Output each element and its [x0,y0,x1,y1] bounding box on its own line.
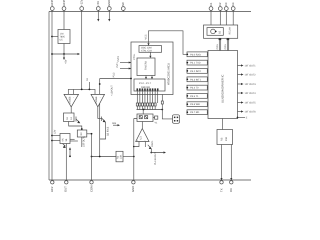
wire VCC riser from U1 to U4 row1 [144,31,187,55]
svg-text:PULSEOUT: PULSEOUT [154,152,157,165]
svg-text:P3.5 T1: P3.5 T1 [190,95,199,98]
svg-text:P3.2: P3.2 [113,72,116,78]
svg-text:10T OUT1: 10T OUT1 [82,135,85,147]
terminal J6 (top, NC) [121,2,125,12]
crystal Y1 [137,114,158,125]
voltage regulator U5 LM7805 [58,30,70,44]
svg-text:COIL: COIL [224,43,227,49]
dip switch S1 [173,115,180,124]
transistor Q3 emitter arrows [63,139,78,148]
net label box P3.6 [186,102,208,107]
wire net K vertical to GND terminal [91,134,93,180]
wire U1 to S1 [161,95,163,102]
svg-text:P3.3 INT1: P3.3 INT1 [190,78,201,81]
svg-text:10T OUT1: 10T OUT1 [245,65,257,68]
U4 output pin OUT3 [238,83,257,86]
wire U2A output down [70,107,72,113]
MCU U1 outer box [131,42,173,95]
svg-text:AC2: AC2 [50,186,54,192]
svg-text:TX: TX [219,188,223,192]
U4 output pin OUT1 [238,64,257,67]
wire J7 RX down [230,145,232,179]
net label box P3.7 [186,110,208,115]
wire INT0 into U1 [117,56,131,64]
svg-text:K3: K3 [224,2,228,6]
terminal J3 (top, +12V) [80,0,84,10]
terminal K2 (top) [218,2,222,10]
U1 inner block: oscillator [139,46,162,53]
wire J2 to U5 [63,11,65,30]
svg-text:COIL: COIL [216,43,219,49]
wire U6 to terminal [65,144,67,181]
off-page arrow SIG [112,122,120,126]
node +5V rail with off-page arrow [51,53,80,55]
terminal J12 (bottom, TX) [219,181,223,192]
wire K3 to LS1 [225,11,227,26]
wire AC1 to U5 input [51,36,58,38]
interface module J7 [217,130,233,145]
wire net to MCU P3.2 (long vertical) [99,79,101,157]
svg-text:+5V: +5V [65,59,68,64]
wire R2 to rail K [87,133,93,135]
terminal J4 (top, +5V) with down arrow [96,1,100,22]
svg-text:+5V: +5V [96,1,100,6]
wire J7 TX down [221,145,223,179]
svg-text:P3.7 RD: P3.7 RD [190,111,199,114]
wire K2 to LS1 [219,11,221,26]
terminal K1 (top) [209,2,213,10]
wire INT1 into U1 [116,62,131,70]
net label box P3.4 [186,85,208,90]
wire stub +12V to rail [86,77,90,89]
svg-text:COM: COM [89,185,93,192]
wire U4 GND stub [237,117,248,120]
svg-text:+12V: +12V [80,0,84,6]
terminal J1 (top, AC9V) [50,0,54,10]
wire timer to port block arrow [145,76,153,80]
transistor Q2 [98,117,110,140]
svg-text:10T OUT2: 10T OUT2 [245,74,257,77]
resistor R3 [116,151,123,162]
wire net AC1 vertical [51,11,53,181]
wire bus to crystal [142,110,144,115]
terminal K3 (top) [224,2,228,10]
net label box P3.3 [186,77,208,82]
U1 inner block: timer [133,53,155,75]
svg-text:LM358: LM358 [95,96,98,104]
node base Q2 [81,128,83,130]
wire U5 output down [63,44,65,55]
svg-text:GND: GND [107,0,111,6]
svg-text:CTRL: CTRL [133,53,136,60]
wire emitter rail (bottom analog) [91,156,135,158]
svg-text:INT1: INT1 [116,62,119,68]
U1 inner block: port latch [134,79,165,91]
svg-text:INT0: INT0 [117,56,120,62]
terminal J9 (bottom, OUT) [63,181,68,192]
svg-text:10T OUT4: 10T OUT4 [245,92,257,95]
svg-text:AC9V: AC9V [50,0,54,6]
wire U3 input stub A [134,142,139,147]
svg-text:P3.0 RXD: P3.0 RXD [190,53,201,56]
svg-text:AC9V: AC9V [62,0,66,6]
wire AC1 to U6 [51,135,60,142]
wire U3 input stub B [144,142,146,148]
resistor R2 [77,130,87,137]
wire R1 to R2 [69,122,82,131]
wire osc to timer with arrow [149,52,151,58]
svg-text:232: 232 [225,136,228,141]
wire P3.2 into U1 [100,72,132,79]
wire net +12V vertical [81,11,83,90]
wire R2 emitter down [82,135,86,147]
node osc out junction [150,152,152,154]
svg-text:P3.6 WR: P3.6 WR [190,103,200,106]
terminal J13 (bottom, RX) [229,181,233,192]
svg-text:1K: 1K [70,117,73,120]
U4 output pin OUT6 [238,110,257,113]
transistor Q4 [148,140,154,149]
svg-text:K1: K1 [209,2,213,6]
terminal K4 (top) [231,2,235,10]
terminal J8 (bottom, AC) [50,181,54,192]
U4 output pin OUT4 [238,92,257,95]
svg-text:LM358: LM358 [68,96,71,104]
U4 output pin OUT5 [238,101,257,104]
svg-text:P1.0 - P1.7: P1.0 - P1.7 [139,82,152,85]
svg-text:P3.2 INT0: P3.2 INT0 [190,70,201,73]
svg-text:SIG: SIG [112,122,116,125]
wire U4 to J7 [222,119,224,130]
svg-text:12V: 12V [54,129,57,134]
frame bottom border [49,179,251,181]
net label box P3.1 [186,60,208,65]
test point arrow TP1 [69,147,71,157]
frame left border [48,12,50,181]
U4 output pin OUT2 [238,73,257,76]
svg-text:K4: K4 [231,2,235,6]
svg-text:10T OUT6: 10T OUT6 [245,111,257,114]
svg-text:VCC: VCC [144,34,147,39]
svg-text:RELAY: RELAY [229,26,232,34]
wire K4 to LS1 [232,11,234,26]
wire pin bus [137,109,164,111]
terminal J5 (top, GND) with down arrow [107,0,111,22]
svg-text:OUT: OUT [63,186,67,192]
svg-text:XTAL CLK: XTAL CLK [141,50,152,53]
svg-text:OSC1: OSC1 [151,140,154,147]
svg-text:+12VOUT: +12VOUT [111,85,114,96]
frame top border [49,11,251,13]
svg-text:10T OUT5: 10T OUT5 [245,102,257,105]
svg-text:AT89C2051 MCU: AT89C2051 MCU [167,63,171,85]
net label box P3.5 [186,94,208,99]
svg-text:10K: 10K [120,154,123,159]
svg-text:RS: RS [221,137,224,141]
svg-text:10T OUT3: 10T OUT3 [245,83,257,86]
wire op-amp supply rail [68,89,95,95]
net label box P3.0 [186,52,208,57]
power symbol +5V down arrow [63,54,68,64]
svg-text:BZ: BZ [218,30,221,34]
wire crystal left leg to rail [133,119,137,157]
transistor Q1 [76,117,80,124]
op-amp U2B (LM358) [91,94,105,107]
resistor R1 [64,113,75,122]
svg-text:GND: GND [131,186,135,192]
svg-text:NC: NC [121,2,125,6]
wire U2B output down [97,107,99,119]
net label box P3.2 [186,69,208,74]
svg-text:Q2 9013: Q2 9013 [106,126,109,136]
U1 pin comb with header pads [136,88,158,109]
svg-text:RX: RX [229,188,233,192]
wire GND terminal riser [133,157,135,181]
terminal J2 (top, AC9V) [62,0,66,10]
wire pair LS1 to U4 coil A [216,38,221,50]
svg-text:K2: K2 [218,2,222,6]
svg-text:ULN2003A DRIVER IC: ULN2003A DRIVER IC [221,75,225,103]
wire osc out to off-page arrow [151,149,166,165]
buzzer block LS1 [204,25,238,38]
svg-text:P3.1 TXD: P3.1 TXD [190,62,201,65]
optocoupler U6 [60,134,70,144]
op-amp U2A (LM358) [64,94,79,107]
driver IC U4 [208,51,238,119]
wire U3 output up to crystal [141,122,143,129]
terminal J11 (bottom, GND) [131,181,135,192]
wire U2A second input stub [73,89,75,94]
wire K1 to LS1 [210,11,212,26]
svg-text:TIMER0: TIMER0 [145,61,148,70]
wire pair LS1 to U4 coil B [224,38,229,50]
terminal J10 (bottom, COM) [89,181,93,192]
op-amp U3 oscillator [136,129,149,142]
svg-text:P3.4 T0: P3.4 T0 [190,87,199,90]
